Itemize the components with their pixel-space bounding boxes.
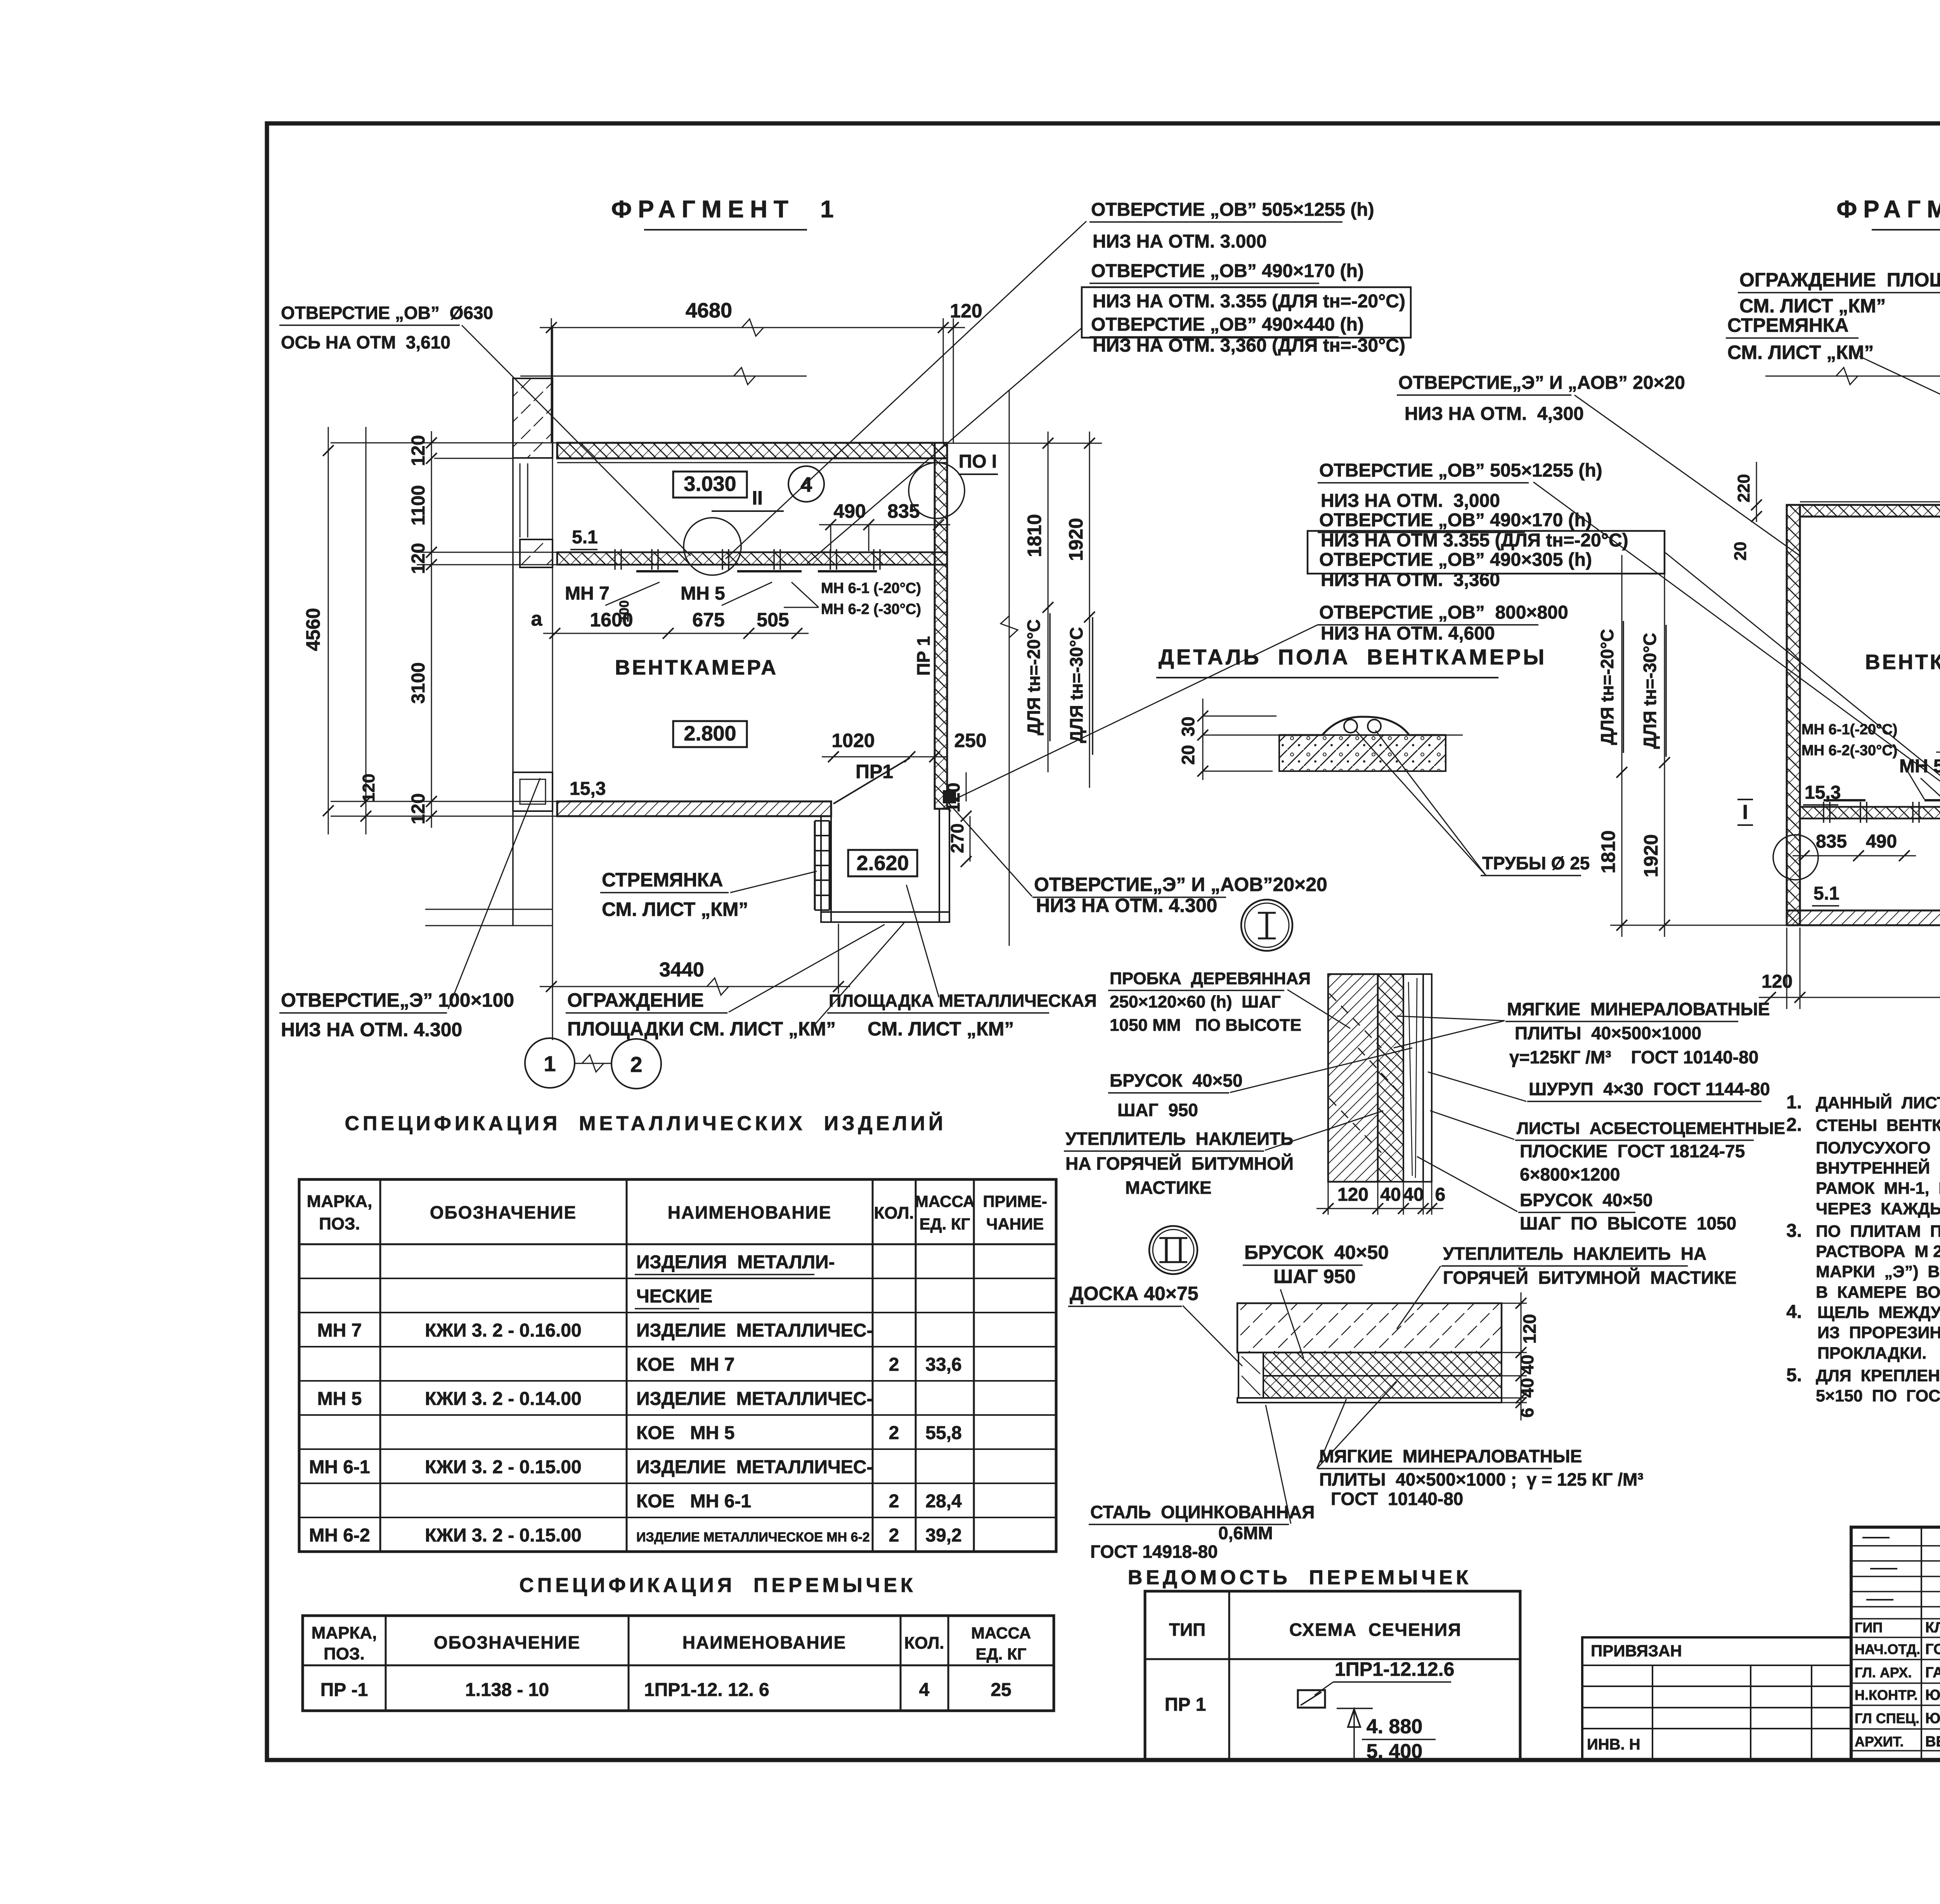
lintel schedule section symbol — [1298, 1690, 1325, 1708]
svg-text:ПОЗ.: ПОЗ. — [319, 1214, 360, 1233]
svg-text:КЖИ 3. 2 - 0.15.00: КЖИ 3. 2 - 0.15.00 — [425, 1525, 581, 1546]
svg-text:4. 880: 4. 880 — [1367, 1715, 1423, 1738]
svg-text:505: 505 — [757, 609, 789, 631]
svg-text:5.1: 5.1 — [1814, 883, 1840, 904]
svg-text:ОГРАЖДЕНИЕ: ОГРАЖДЕНИЕ — [567, 989, 704, 1011]
lintel schedule elevation mark — [1353, 1708, 1355, 1760]
frag1 MH rail marks under partition — [636, 570, 678, 572]
svg-text:2: 2 — [889, 1491, 899, 1512]
svg-text:1920: 1920 — [1065, 518, 1087, 561]
svg-text:3.: 3. — [1786, 1221, 1802, 1241]
svg-text:2: 2 — [630, 1052, 642, 1077]
svg-text:II: II — [752, 487, 763, 509]
svg-text:СТРЕМЯНКА: СТРЕМЯНКА — [1727, 314, 1848, 336]
svg-text:6: 6 — [1517, 1408, 1537, 1418]
section I batten layer — [1403, 974, 1423, 1182]
svg-text:КОЕ МН 7: КОЕ МН 7 — [636, 1354, 734, 1375]
svg-text:1ПР1-12. 12. 6: 1ПР1-12. 12. 6 — [644, 1680, 769, 1700]
title block dash marks upper rows — [1862, 1537, 1890, 1538]
svg-text:ОТВЕРСТИЕ„Э” 100×100: ОТВЕРСТИЕ„Э” 100×100 — [281, 989, 514, 1011]
frag2 section cut circle I on left wall — [1773, 835, 1818, 880]
svg-text:ПОЛУСУХОГО ПРЕССОВАНИЯ МАРКИ: ПОЛУСУХОГО ПРЕССОВАНИЯ МАРКИ М 75 НА РАС… — [1816, 1139, 1940, 1157]
svg-text:НИЗ НА ОТМ. 3.355 (ДЛЯ tн=-20°: НИЗ НА ОТМ. 3.355 (ДЛЯ tн=-20°С) — [1093, 291, 1405, 312]
svg-text:НАИМЕНОВАНИЕ: НАИМЕНОВАНИЕ — [668, 1202, 832, 1223]
svg-text:КЖИ 3. 2 - 0.14.00: КЖИ 3. 2 - 0.14.00 — [425, 1389, 581, 1409]
svg-text:25: 25 — [991, 1680, 1011, 1700]
svg-text:СТРЕМЯНКА: СТРЕМЯНКА — [602, 869, 723, 891]
svg-text:ВЕДОМОСТЬ ПЕРЕМЫЧЕК: ВЕДОМОСТЬ ПЕРЕМЫЧЕК — [1128, 1566, 1472, 1589]
svg-text:120: 120 — [408, 435, 429, 466]
svg-text:6: 6 — [1435, 1184, 1446, 1205]
svg-text:3.030: 3.030 — [684, 472, 736, 496]
floor detail dims 30 20 — [1202, 699, 1204, 780]
svg-text:ПР1: ПР1 — [856, 761, 893, 782]
frag1 top dim 4680 120 — [551, 318, 552, 443]
svg-text:ИЗДЕЛИЕ МЕТАЛЛИЧЕС-: ИЗДЕЛИЕ МЕТАЛЛИЧЕС- — [636, 1389, 873, 1409]
svg-text:ДЛЯ tн=-30°С: ДЛЯ tн=-30°С — [1066, 627, 1086, 743]
frag2 MH rail marks above partition — [1824, 799, 1866, 801]
svg-text:ИЗДЕЛИЯ МЕТАЛЛИ-: ИЗДЕЛИЯ МЕТАЛЛИ- — [636, 1252, 835, 1273]
frag2 bottom dim 120 4680 — [1786, 928, 1788, 1009]
svg-text:28,4: 28,4 — [925, 1491, 962, 1512]
svg-text:ОТВЕРСТИЕ „ОВ” 490×305 (h): ОТВЕРСТИЕ „ОВ” 490×305 (h) — [1319, 550, 1592, 570]
svg-text:ОТВЕРСТИЕ „ОВ” Ø630: ОТВЕРСТИЕ „ОВ” Ø630 — [281, 303, 493, 323]
svg-text:2.620: 2.620 — [856, 851, 909, 875]
svg-text:ОТВЕРСТИЕ„Э” И „АОВ”20×20: ОТВЕРСТИЕ„Э” И „АОВ”20×20 — [1034, 874, 1327, 895]
svg-text:МАССА: МАССА — [915, 1192, 975, 1210]
svg-text:ВЕРХОВСКИЙ: ВЕРХОВСКИЙ — [1925, 1732, 1940, 1750]
svg-text:НИЗ НА ОТМ. 4,600: НИЗ НА ОТМ. 4,600 — [1321, 623, 1495, 644]
svg-text:1.: 1. — [1786, 1092, 1802, 1113]
svg-text:КОЛ.: КОЛ. — [904, 1633, 944, 1653]
svg-text:АРХИТ.: АРХИТ. — [1855, 1734, 1904, 1750]
svg-text:ПЛОЩАДКИ СМ. ЛИСТ „КМ”: ПЛОЩАДКИ СМ. ЛИСТ „КМ” — [567, 1018, 836, 1040]
svg-text:220: 220 — [1734, 474, 1753, 502]
section II right dims — [1502, 1303, 1527, 1304]
frag1 ladder stremyanka — [814, 821, 816, 910]
svg-text:ПЛОСКИЕ ГОСТ 18124-75: ПЛОСКИЕ ГОСТ 18124-75 — [1520, 1141, 1745, 1161]
svg-text:30: 30 — [1178, 716, 1198, 736]
svg-text:СТАЛЬ ОЦИНКОВАННАЯ: СТАЛЬ ОЦИНКОВАННАЯ — [1090, 1502, 1315, 1522]
frag1 bottom dim 3440 — [838, 924, 839, 994]
title block main outline — [1851, 1527, 1940, 1760]
svg-text:МН 7: МН 7 — [565, 583, 610, 604]
svg-text:ГОРЯЧЕЙ БИТУМНОЙ МАСТИКЕ: ГОРЯЧЕЙ БИТУМНОЙ МАСТИКЕ — [1443, 1268, 1737, 1288]
section I insulation layer — [1378, 974, 1403, 1182]
svg-text:В КАМЕРЕ ВОЗДУХОЗАБОРА ВЫПО: В КАМЕРЕ ВОЗДУХОЗАБОРА ВЫПОЛНИТЬ ПОЛ ТИП… — [1816, 1283, 1940, 1302]
svg-text:СМ. ЛИСТ „КМ”: СМ. ЛИСТ „КМ” — [868, 1018, 1014, 1040]
svg-text:15,3: 15,3 — [570, 779, 606, 799]
svg-text:ОТВЕРСТИЕ „ОВ” 800×800: ОТВЕРСТИЕ „ОВ” 800×800 — [1319, 602, 1568, 623]
svg-text:1020: 1020 — [831, 730, 875, 751]
svg-text:ИЗ ПРОРЕЗИНЕННОЙ ТКАНИ , В: ИЗ ПРОРЕЗИНЕННОЙ ТКАНИ , В ПРИТВОРАХ ДВЕ… — [1817, 1323, 1940, 1342]
svg-text:ОБОЗНАЧЕНИЕ: ОБОЗНАЧЕНИЕ — [434, 1632, 580, 1653]
section II slab top layer — [1237, 1303, 1502, 1353]
frag2 top left small dims 220 20 — [1756, 462, 1757, 522]
svg-text:1600: 1600 — [590, 609, 633, 631]
svg-text:120: 120 — [1337, 1184, 1368, 1205]
svg-text:ДЛЯ tн=-20°С: ДЛЯ tн=-20°С — [1597, 629, 1617, 745]
svg-text:250×120×60 (h) ШАГ: 250×120×60 (h) ШАГ — [1110, 992, 1281, 1011]
frag1 outer wall block bottom — [513, 772, 553, 811]
svg-text:4.: 4. — [1786, 1302, 1802, 1322]
svg-text:МЯГКИЕ МИНЕРАЛОВАТНЫЕ: МЯГКИЕ МИНЕРАЛОВАТНЫЕ — [1507, 999, 1770, 1019]
svg-text:ПОЗ.: ПОЗ. — [324, 1644, 365, 1663]
frag1 building edge line above — [520, 376, 807, 377]
svg-text:СПЕЦИФИКАЦИЯ ПЕРЕМЫЧЕК: СПЕЦИФИКАЦИЯ ПЕРЕМЫЧЕК — [519, 1574, 916, 1597]
frag1 dim row 490 835 — [819, 524, 950, 525]
svg-text:33,6: 33,6 — [925, 1354, 961, 1375]
svg-text:МН 6-2 (-30°С): МН 6-2 (-30°С) — [821, 601, 921, 617]
svg-text:ШАГ ПО ВЫСОТЕ 1050: ШАГ ПО ВЫСОТЕ 1050 — [1520, 1213, 1736, 1233]
svg-text:1050 ММ ПО ВЫСОТЕ: 1050 ММ ПО ВЫСОТЕ — [1110, 1016, 1301, 1035]
frag1 right wall corner block — [943, 790, 956, 803]
svg-text:КЛЕЙН: КЛЕЙН — [1925, 1618, 1940, 1636]
svg-text:ГОСТ 14918-80: ГОСТ 14918-80 — [1090, 1542, 1218, 1562]
spec table metal items grid — [299, 1179, 1056, 1552]
svg-text:МАРКА,: МАРКА, — [312, 1623, 377, 1642]
svg-text:СМ. ЛИСТ „КМ”: СМ. ЛИСТ „КМ” — [602, 898, 748, 920]
svg-text:СПЕЦИФИКАЦИЯ МЕТАЛЛИЧЕСКИХ И: СПЕЦИФИКАЦИЯ МЕТАЛЛИЧЕСКИХ ИЗДЕЛИЙ — [345, 1112, 946, 1135]
frag2 main top wall — [1800, 505, 1940, 517]
frag1 venting chamber top wall — [557, 443, 947, 458]
frag1 door opening diagonal PR1 — [833, 758, 910, 804]
svg-text:675: 675 — [692, 609, 724, 631]
frag1 wall stub lines left bottom — [331, 801, 557, 802]
svg-text:4680: 4680 — [686, 299, 732, 322]
svg-text:ДОСКА 40×75: ДОСКА 40×75 — [1070, 1283, 1199, 1304]
annotation block C leaders to frag2 — [1533, 482, 1940, 810]
svg-text:39,2: 39,2 — [925, 1525, 961, 1546]
svg-text:120: 120 — [1519, 1314, 1540, 1344]
frag1 boundary extension line — [1009, 390, 1010, 946]
frag1 wall stub lines left middle — [417, 552, 557, 553]
svg-text:ПРИМЕ-: ПРИМЕ- — [983, 1192, 1047, 1210]
svg-text:55,8: 55,8 — [925, 1423, 961, 1443]
svg-text:ДЕТАЛЬ ПОЛА ВЕНТКАМЕРЫ: ДЕТАЛЬ ПОЛА ВЕНТКАМЕРЫ — [1159, 645, 1547, 669]
svg-text:ОТВЕРСТИЕ „ОВ” 490×440 (h): ОТВЕРСТИЕ „ОВ” 490×440 (h) — [1091, 314, 1364, 335]
svg-text:250: 250 — [954, 730, 986, 751]
svg-text:МН 6-1 (-20°С): МН 6-1 (-20°С) — [821, 580, 921, 597]
svg-text:ВЕНТКАМЕРА: ВЕНТКАМЕРА — [1865, 650, 1940, 674]
svg-text:ЮДИН: ЮДИН — [1925, 1687, 1940, 1703]
frag1 right dim chain 1810 1920 — [947, 443, 1102, 444]
spec table lintels grid — [303, 1616, 1054, 1711]
svg-text:ПО ПЛИТАМ ПОЛА ВЕНТКАМЕРЫ: ПО ПЛИТАМ ПОЛА ВЕНТКАМЕРЫ ВЫПОЛНИТЬ ПОКР… — [1816, 1222, 1940, 1241]
svg-text:УТЕПЛИТЕЛЬ НАКЛЕИТЬ: УТЕПЛИТЕЛЬ НАКЛЕИТЬ — [1065, 1129, 1293, 1149]
svg-text:МН 6-1: МН 6-1 — [309, 1457, 370, 1477]
svg-text:МН 7: МН 7 — [317, 1320, 362, 1341]
svg-text:УТЕПЛИТЕЛЬ НАКЛЕИТЬ НА: УТЕПЛИТЕЛЬ НАКЛЕИТЬ НА — [1443, 1243, 1706, 1264]
svg-text:0,6ММ: 0,6ММ — [1218, 1523, 1273, 1543]
frag1 level box 3.030 — [673, 472, 747, 498]
frag2 bottom wall — [1787, 910, 1940, 925]
svg-text:КОЕ МН 5: КОЕ МН 5 — [636, 1423, 734, 1443]
section II circle — [1149, 1226, 1197, 1274]
svg-text:СМ. ЛИСТ „КМ”: СМ. ЛИСТ „КМ” — [1739, 295, 1886, 317]
svg-text:4560: 4560 — [302, 608, 324, 651]
svg-text:НИЗ НА ОТМ 3.355 (ДЛЯ tн=-20°С: НИЗ НА ОТМ 3.355 (ДЛЯ tн=-20°С) — [1321, 530, 1628, 551]
svg-text:ТРУБЫ Ø 25: ТРУБЫ Ø 25 — [1482, 853, 1590, 873]
frag1 level box 2.620 — [848, 850, 917, 876]
svg-text:НИЗ НА ОТМ. 4.300: НИЗ НА ОТМ. 4.300 — [281, 1019, 462, 1040]
svg-text:120: 120 — [408, 543, 429, 574]
frag2 inner partition wall — [1800, 807, 1940, 818]
section II bottom sheet — [1237, 1398, 1502, 1403]
frag1 middle dim line 120 bottom — [365, 427, 367, 834]
svg-text:БРУСОК 40×50: БРУСОК 40×50 — [1244, 1242, 1389, 1263]
svg-text:ШУРУП 4×30 ГОСТ 1144-80: ШУРУП 4×30 ГОСТ 1144-80 — [1529, 1079, 1770, 1099]
svg-text:МН 5: МН 5 — [317, 1389, 362, 1409]
title block signature column lines — [1921, 1527, 1922, 1760]
section I asbestos sheet layer — [1423, 974, 1432, 1182]
svg-text:1100: 1100 — [408, 485, 429, 525]
svg-text:ГОМЗЯКОВ: ГОМЗЯКОВ — [1925, 1641, 1940, 1658]
svg-text:ИНВ. Н: ИНВ. Н — [1587, 1736, 1640, 1753]
svg-text:1ПР1-12.12.6: 1ПР1-12.12.6 — [1335, 1658, 1454, 1680]
svg-text:835: 835 — [887, 500, 920, 522]
svg-text:ПЛИТЫ 40×500×1000 ; γ = 125: ПЛИТЫ 40×500×1000 ; γ = 125 КГ /М³ — [1319, 1469, 1644, 1490]
svg-text:МАРКА,: МАРКА, — [307, 1192, 372, 1211]
svg-text:120: 120 — [359, 773, 378, 802]
svg-text:ПР -1: ПР -1 — [320, 1680, 368, 1700]
frag1 outer wall window lines — [520, 463, 521, 538]
svg-text:ОТВЕРСТИЕ„Э” И „АОВ” 20×20: ОТВЕРСТИЕ„Э” И „АОВ” 20×20 — [1398, 373, 1685, 393]
svg-text:15,3: 15,3 — [1805, 782, 1841, 803]
svg-text:ЩЕЛЬ МЕЖДУ ДВЕРЬЮ И ПОЛОМ: ЩЕЛЬ МЕЖДУ ДВЕРЬЮ И ПОЛОМ ВЕНТКАМЕРЫ УСТ… — [1817, 1303, 1940, 1322]
svg-text:40: 40 — [1517, 1378, 1537, 1398]
svg-text:ОТВЕРСТИЕ „ОВ” 505×1255 (h): ОТВЕРСТИЕ „ОВ” 505×1255 (h) — [1319, 460, 1602, 481]
svg-text:490: 490 — [833, 500, 866, 522]
annotation block A leaders to frag1 — [726, 221, 1086, 559]
svg-text:ГОСТ 10140-80: ГОСТ 10140-80 — [1331, 1489, 1463, 1509]
frag2 dim row 835 490 — [1793, 855, 1916, 857]
svg-text:НИЗ НА ОТМ. 4,300: НИЗ НА ОТМ. 4,300 — [1405, 404, 1584, 424]
svg-text:СМ. ЛИСТ „КМ”: СМ. ЛИСТ „КМ” — [1727, 342, 1874, 363]
svg-text:ТИП: ТИП — [1169, 1620, 1206, 1640]
svg-text:ДЛЯ tн=-30°С: ДЛЯ tн=-30°С — [1640, 633, 1660, 749]
frag1 lower room walls (air intake 2.620) — [821, 816, 831, 922]
svg-text:МАССА: МАССА — [971, 1624, 1031, 1642]
svg-text:ПРИВЯЗАН: ПРИВЯЗАН — [1591, 1642, 1682, 1660]
svg-text:МН 6-1(-20°С): МН 6-1(-20°С) — [1801, 721, 1897, 738]
svg-text:ОТВЕРСТИЕ „ОВ” 490×170 (h): ОТВЕРСТИЕ „ОВ” 490×170 (h) — [1091, 261, 1364, 281]
svg-text:ШАГ 950: ШАГ 950 — [1273, 1266, 1356, 1287]
frag1 section cut circle II — [684, 518, 741, 575]
svg-text:ПР 1: ПР 1 — [1165, 1694, 1206, 1715]
svg-text:6×800×1200: 6×800×1200 — [1520, 1164, 1620, 1184]
svg-text:120: 120 — [1762, 971, 1793, 992]
svg-text:2.800: 2.800 — [684, 722, 736, 745]
svg-text:ПРОБКА ДЕРЕВЯННАЯ: ПРОБКА ДЕРЕВЯННАЯ — [1110, 969, 1311, 988]
svg-text:3100: 3100 — [408, 662, 429, 704]
svg-text:а: а — [531, 608, 543, 630]
svg-text:ФРАГМЕНТ 1: ФРАГМЕНТ 1 — [611, 196, 840, 223]
frag2 left dim chains 1810 1920 — [1621, 555, 1623, 937]
svg-text:γ=125КГ /М³ ГОСТ 10140-80: γ=125КГ /М³ ГОСТ 10140-80 — [1509, 1047, 1758, 1067]
svg-text:БРУСОК 40×50: БРУСОК 40×50 — [1110, 1070, 1242, 1091]
svg-text:40: 40 — [1517, 1354, 1537, 1374]
svg-text:МАРКИ „Э”) ВЫПОЛНИТЬ МЕСТНО: МАРКИ „Э”) ВЫПОЛНИТЬ МЕСТНОЕ УТОЛЩЕНИЕ С… — [1816, 1262, 1940, 1281]
svg-text:ЕД. КГ: ЕД. КГ — [920, 1215, 970, 1233]
svg-text:ДАННЫЙ ЛИСТ СМ. СОВМЕСТНО С: ДАННЫЙ ЛИСТ СМ. СОВМЕСТНО С ЛИСТАМИ 1, 2… — [1816, 1093, 1940, 1112]
svg-text:3440: 3440 — [659, 959, 704, 981]
svg-text:ЧЕРЕЗ КАЖДЫЕ 4 РЯДА КЛАДКИ: ЧЕРЕЗ КАЖДЫЕ 4 РЯДА КЛАДКИ ПРОЛОЖИТЬ АРМ… — [1816, 1200, 1940, 1218]
svg-text:120: 120 — [408, 793, 429, 824]
frag1 left overall dim 4560 — [328, 427, 329, 834]
svg-text:1920: 1920 — [1640, 834, 1662, 877]
svg-text:НА ГОРЯЧЕЙ БИТУМНОЙ: НА ГОРЯЧЕЙ БИТУМНОЙ — [1065, 1153, 1294, 1174]
svg-text:40: 40 — [1403, 1184, 1424, 1205]
sheet border frame — [267, 123, 1940, 1760]
svg-text:5.: 5. — [1786, 1365, 1802, 1386]
svg-text:МЯГКИЕ МИНЕРАЛОВАТНЫЕ: МЯГКИЕ МИНЕРАЛОВАТНЫЕ — [1319, 1446, 1582, 1466]
svg-text:СТЕНЫ ВЕНТКАМЕРЫ ВЫПОЛНЯТЬ: СТЕНЫ ВЕНТКАМЕРЫ ВЫПОЛНЯТЬ ИЗ КИРПИЧА ГЛ… — [1816, 1116, 1940, 1135]
svg-text:ОБОЗНАЧЕНИЕ: ОБОЗНАЧЕНИЕ — [430, 1202, 577, 1223]
frag2 left wall — [1787, 505, 1800, 925]
svg-text:20: 20 — [1178, 745, 1198, 765]
svg-text:ЮДИН: ЮДИН — [1925, 1710, 1940, 1727]
frag1 lower adjacent wall lines — [425, 909, 553, 910]
frag1 wall stub lines left top — [331, 442, 557, 444]
svg-text:4: 4 — [919, 1680, 930, 1700]
svg-text:ОСЬ НА ОТМ 3,610: ОСЬ НА ОТМ 3,610 — [281, 332, 450, 352]
svg-text:ПО I: ПО I — [959, 451, 997, 472]
annotation block C box — [1308, 531, 1665, 574]
svg-text:I: I — [1743, 801, 1748, 824]
svg-text:2: 2 — [889, 1423, 899, 1443]
svg-text:МН 6-2(-30°С): МН 6-2(-30°С) — [1801, 742, 1897, 759]
svg-text:НАЧ.ОТД.: НАЧ.ОТД. — [1855, 1641, 1920, 1657]
svg-text:КЖИ 3. 2 - 0.16.00: КЖИ 3. 2 - 0.16.00 — [425, 1320, 581, 1341]
frag1 left inner dim chain — [431, 431, 432, 828]
svg-text:РАМОК МН-1, МН-2, МН-3. КЛ: РАМОК МН-1, МН-2, МН-3. КЛАДКУ ВЫПОЛНЯТЬ… — [1816, 1179, 1940, 1198]
section I bottom dim 120 40 40 6 — [1328, 1182, 1329, 1215]
svg-text:ПРОКЛАДКИ.: ПРОКЛАДКИ. — [1817, 1344, 1926, 1363]
svg-text:5, 400: 5, 400 — [1367, 1740, 1423, 1763]
svg-text:НИЗ НА ОТМ. 4.300: НИЗ НА ОТМ. 4.300 — [1036, 895, 1217, 916]
svg-text:ПЛОЩАДКА МЕТАЛЛИЧЕСКАЯ: ПЛОЩАДКА МЕТАЛЛИЧЕСКАЯ — [829, 991, 1097, 1011]
frag1 level box 2.800 — [673, 721, 747, 747]
frag2 building edge line above — [1765, 376, 1940, 377]
svg-text:ЕД. КГ: ЕД. КГ — [976, 1645, 1027, 1663]
svg-text:БРУСОК 40×50: БРУСОК 40×50 — [1520, 1190, 1652, 1210]
svg-text:ОТВЕРСТИЕ „ОВ” 490×170 (h): ОТВЕРСТИЕ „ОВ” 490×170 (h) — [1319, 510, 1592, 531]
frag1 venting chamber bottom wall — [557, 801, 831, 816]
svg-text:МАСТИКЕ: МАСТИКЕ — [1125, 1177, 1211, 1198]
svg-text:835: 835 — [1816, 831, 1847, 852]
svg-text:20: 20 — [1731, 542, 1750, 561]
annotation block A box — [1082, 287, 1411, 338]
svg-text:490: 490 — [1866, 831, 1897, 852]
svg-text:ГЛ СПЕЦ.: ГЛ СПЕЦ. — [1855, 1710, 1919, 1726]
svg-text:ГЛ. АРХ.: ГЛ. АРХ. — [1855, 1665, 1912, 1680]
frag1 outer wall block top — [513, 378, 553, 458]
frag1 venting chamber right wall — [935, 443, 947, 809]
svg-text:ПЛИТЫ 40×500×1000: ПЛИТЫ 40×500×1000 — [1515, 1023, 1701, 1043]
svg-text:ПР 1: ПР 1 — [913, 636, 934, 676]
svg-text:КЖИ 3. 2 - 0.15.00: КЖИ 3. 2 - 0.15.00 — [425, 1457, 581, 1477]
svg-text:2: 2 — [889, 1354, 899, 1375]
svg-text:2.: 2. — [1786, 1115, 1802, 1135]
svg-text:НИЗ НА ОТМ. 3.000: НИЗ НА ОТМ. 3.000 — [1093, 231, 1267, 252]
svg-text:ДЛЯ tн=-20°С: ДЛЯ tн=-20°С — [1024, 619, 1044, 735]
svg-text:ЧЕСКИЕ: ЧЕСКИЕ — [636, 1286, 712, 1307]
svg-text:КОЕ МН 6-1: КОЕ МН 6-1 — [636, 1491, 751, 1512]
section I dashed plug diagonals — [1329, 994, 1381, 1048]
svg-text:ИЗДЕЛИЕ МЕТАЛЛИЧЕСКОЕ МН 6-2: ИЗДЕЛИЕ МЕТАЛЛИЧЕСКОЕ МН 6-2 — [636, 1530, 870, 1545]
svg-text:КОЛ.: КОЛ. — [874, 1203, 914, 1223]
svg-text:ЧАНИЕ: ЧАНИЕ — [986, 1215, 1044, 1233]
svg-text:МН 5: МН 5 — [1899, 756, 1940, 777]
svg-text:ВНУТРЕННЕЙ ПЕРЕГОРОДКИ ВЕСТИ: ВНУТРЕННЕЙ ПЕРЕГОРОДКИ ВЕСТИ ОДНОВРЕМЕНН… — [1816, 1158, 1940, 1177]
svg-text:Н.КОНТР.: Н.КОНТР. — [1855, 1687, 1918, 1703]
svg-text:ЛИСТЫ АСБЕСТОЦЕМЕНТНЫЕ: ЛИСТЫ АСБЕСТОЦЕМЕНТНЫЕ — [1517, 1119, 1785, 1138]
svg-text:5.1: 5.1 — [572, 527, 598, 548]
svg-text:1810: 1810 — [1597, 830, 1619, 873]
frag2 dim row 505 675 1600 — [1936, 752, 1940, 753]
svg-text:1.138 - 10: 1.138 - 10 — [465, 1680, 549, 1700]
frag1 callout circle 4 — [788, 466, 824, 502]
svg-text:ГИП: ГИП — [1855, 1620, 1883, 1635]
svg-text:ГАВРИЛОВ: ГАВРИЛОВ — [1925, 1665, 1940, 1681]
svg-text:ВЕНТКАМЕРА: ВЕНТКАМЕРА — [615, 656, 778, 679]
frag1 outer wall strip verticals — [512, 378, 514, 926]
svg-text:120: 120 — [950, 300, 982, 322]
svg-text:НИЗ НА ОТМ. 3,000: НИЗ НА ОТМ. 3,000 — [1321, 491, 1500, 511]
svg-text:ДЛЯ КРЕПЛЕНИЯ ДЕРЕВЯННЫХ ЭЛ: ДЛЯ КРЕПЛЕНИЯ ДЕРЕВЯННЫХ ЭЛЕМЕНТОВ ПРИМЕ… — [1816, 1366, 1940, 1385]
frag1 inner partition wall — [557, 552, 947, 565]
svg-text:4: 4 — [800, 473, 812, 496]
svg-text:ИЗДЕЛИЕ МЕТАЛЛИЧЕС-: ИЗДЕЛИЕ МЕТАЛЛИЧЕС- — [636, 1320, 873, 1341]
frag1 axis circles 1 and 2 — [552, 926, 553, 1037]
svg-text:МН 6-2: МН 6-2 — [309, 1525, 370, 1546]
svg-text:2: 2 — [889, 1525, 899, 1546]
frag1 outer wall block middle — [520, 539, 553, 567]
floor detail pipes — [1344, 720, 1357, 733]
svg-text:РАСТВОРА М 200 ТОЛЩИНОЙ 20: РАСТВОРА М 200 ТОЛЩИНОЙ 20 ММ . В МЕСТАХ… — [1816, 1242, 1940, 1261]
svg-text:5×150 ПО ГОСТ 4028-63.: 5×150 ПО ГОСТ 4028-63. — [1816, 1387, 1940, 1405]
svg-text:1: 1 — [544, 1051, 556, 1076]
section II slab insulation layers — [1263, 1353, 1502, 1376]
svg-text:СХЕМА СЕЧЕНИЯ: СХЕМА СЕЧЕНИЯ — [1289, 1620, 1462, 1640]
svg-text:ИЗДЕЛИЕ МЕТАЛЛИЧЕС-: ИЗДЕЛИЕ МЕТАЛЛИЧЕС- — [636, 1457, 873, 1477]
svg-text:ФРАГМЕНТ 2: ФРАГМЕНТ 2 — [1836, 196, 1940, 223]
title block left part privyazan — [1582, 1637, 1851, 1760]
svg-text:НАИМЕНОВАНИЕ: НАИМЕНОВАНИЕ — [682, 1632, 847, 1653]
svg-text:МН 5: МН 5 — [681, 583, 725, 604]
svg-text:ШАГ 950: ШАГ 950 — [1117, 1100, 1198, 1120]
svg-text:1810: 1810 — [1024, 514, 1045, 557]
svg-text:ОТВЕРСТИЕ „ОВ” 505×1255 (h): ОТВЕРСТИЕ „ОВ” 505×1255 (h) — [1091, 199, 1374, 220]
svg-text:ОГРАЖДЕНИЕ ПЛОЩАДКИ: ОГРАЖДЕНИЕ ПЛОЩАДКИ — [1739, 269, 1940, 291]
svg-text:40: 40 — [1380, 1184, 1401, 1205]
floor detail slab — [1279, 717, 1446, 735]
section I wall strip brick layer — [1328, 974, 1378, 1182]
frag1 door dim 1020 250 — [822, 756, 946, 758]
section II wood board block — [1238, 1353, 1263, 1398]
section I circle — [1241, 900, 1292, 951]
title block signature row lines — [1851, 1545, 1940, 1547]
lintel schedule grid — [1145, 1591, 1520, 1760]
